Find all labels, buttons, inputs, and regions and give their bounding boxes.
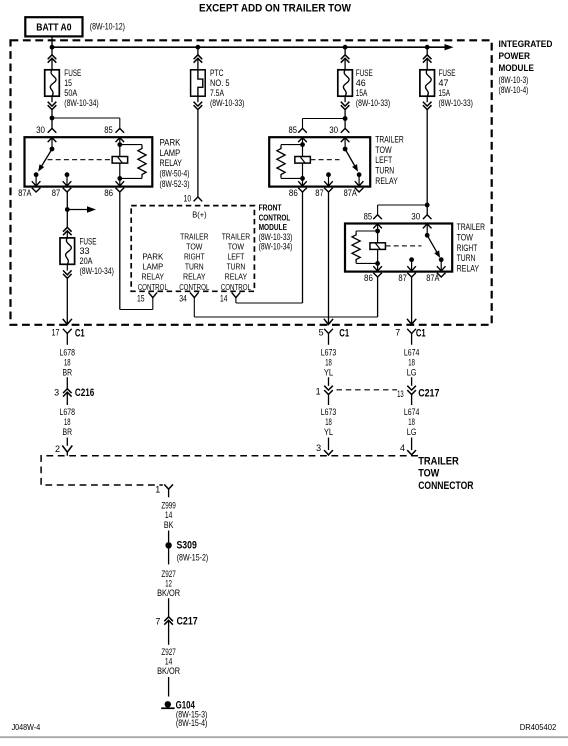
svg-text:87: 87 [52,188,61,198]
svg-text:RIGHT: RIGHT [457,243,478,253]
svg-text:L674: L674 [404,347,420,357]
svg-text:YL: YL [324,427,333,437]
park relay node coil top [117,142,122,147]
node bus-fuse15 [50,45,55,50]
svg-text:86: 86 [364,273,373,283]
fuse46 lower terminal chevrons [344,96,346,102]
svg-text:FRONT: FRONT [259,203,282,213]
wire to left-turn relay pin30 [344,119,346,129]
svg-text:RIGHT: RIGHT [184,252,205,262]
svg-text:TRAILER: TRAILER [418,455,459,467]
park relay switch common wire [51,138,53,149]
svg-text:17: 17 [52,327,60,337]
svg-text:TRAILER: TRAILER [457,222,486,232]
wire to C217 terminal 1 [328,377,330,386]
wire to ground G104 [168,677,170,697]
svg-text:BR: BR [63,427,73,437]
svg-text:LEFT: LEFT [227,252,244,262]
wire fuse47 down to right-turn relay feed node [426,110,428,205]
svg-text:TURN: TURN [457,253,476,263]
right-turn relay coil wires [377,224,379,243]
wire C216 down [66,392,68,405]
fuse F15 [45,70,60,96]
PTC lower terminal chevrons [197,96,199,102]
svg-text:2: 2 [55,444,60,454]
park relay pin 86 bottom [116,181,125,186]
node bus-fuse47 [425,45,430,50]
node fuse46 out [343,116,348,121]
svg-text:(8W-10-33): (8W-10-33) [356,98,390,108]
left-turn relay contact 87 [326,172,331,177]
trailer tow connector terminal 4 [407,450,416,455]
svg-text:18: 18 [64,417,71,427]
svg-text:85: 85 [364,211,373,221]
connector C1 terminal 17 [63,329,72,334]
wire C217-7 down [168,620,170,645]
right-turn relay resistor [356,230,378,232]
left-turn relay coil wires [302,138,304,157]
connector C1 terminal 5 [324,329,333,334]
svg-text:87A: 87A [426,273,439,283]
left-turn relay node coil bottom [300,176,305,181]
svg-text:46: 46 [356,78,366,88]
right-turn relay pin 87 bottom [407,266,416,271]
svg-text:CONTROL: CONTROL [221,282,251,292]
svg-text:LG: LG [407,427,417,437]
left-turn relay pin 87A bottom [355,181,364,186]
relay box PARK LAMP RELAY [25,137,153,186]
right-turn relay switch common wire [426,224,428,235]
svg-text:TURN: TURN [227,262,246,272]
svg-text:C217: C217 [177,615,198,627]
wire fuse15 to relay node [51,110,53,118]
svg-text:(8W-10-33): (8W-10-33) [439,98,473,108]
fuse47 lower terminal chevrons [426,96,428,102]
wire to trailer tow connector terminal 4 [411,438,413,451]
svg-text:L673: L673 [321,407,337,417]
park relay switch arm [40,149,53,170]
svg-text:C216: C216 [75,387,94,399]
connector C217 dashed link [337,389,398,391]
svg-text:RELAY: RELAY [375,176,398,186]
svg-text:12: 12 [165,578,172,588]
svg-text:NO. 5: NO. 5 [210,78,230,88]
svg-text:Z999: Z999 [161,500,176,510]
wire BATT A0 down to bus [51,36,53,47]
left-turn relay coil link dashed [310,159,339,161]
wire fuse33 to connector C1 terminal 17 [66,278,68,324]
park relay coil [112,157,128,164]
svg-text:TOW: TOW [418,468,440,480]
park relay coil link dashed [48,159,112,161]
wire PTC to FCM pin 10 [197,110,199,197]
relay box TRAILER TOW RIGHT TURN RELAY [345,224,452,272]
svg-text:30: 30 [329,125,338,135]
svg-text:1: 1 [155,485,160,495]
svg-text:87A: 87A [344,188,357,198]
svg-text:TOW: TOW [457,232,474,242]
FCM pin 15 [149,292,158,297]
svg-text:INTEGRATED: INTEGRATED [499,39,553,50]
svg-text:BK: BK [164,520,174,530]
svg-text:C217: C217 [418,387,439,399]
fuse F46 [338,70,353,96]
svg-text:TRAILER: TRAILER [180,232,208,242]
svg-text:CONTROL: CONTROL [179,282,209,292]
svg-text:PARK: PARK [160,137,181,147]
fuse33 lower terminal chevrons [66,264,68,270]
svg-text:TURN: TURN [185,262,204,272]
svg-text:18: 18 [64,357,71,367]
svg-text:LEFT: LEFT [375,155,392,165]
park relay node coil bottom [117,176,122,181]
park relay contact 87 [65,172,70,177]
svg-text:L674: L674 [404,407,420,417]
wire to C216 [66,377,68,389]
svg-text:C1: C1 [75,328,85,340]
svg-text:7: 7 [155,616,160,626]
PTC No.5 device [191,70,206,96]
right-turn relay pin 85 top [373,215,382,219]
trailer tow connector terminal 1 [164,484,173,489]
svg-text:(8W-15-4): (8W-15-4) [176,718,208,728]
svg-text:5: 5 [319,327,324,337]
park relay pin 85 top [116,128,125,132]
svg-text:MODULE: MODULE [259,222,288,232]
wire bus to fuse15 terminal [51,47,53,55]
wire Z999 upper segment [168,489,170,497]
park relay pin 87 bottom [63,181,72,186]
svg-text:S309: S309 [177,540,197,552]
svg-text:(8W-15-2): (8W-15-2) [177,552,209,562]
connector C217 terminal 7 [164,617,173,621]
wire left-turn relay 87 down to C1 terminal 5 [328,192,330,325]
branch arrow to park lamps [67,209,88,211]
svg-text:RELAY: RELAY [142,272,165,282]
node bus-PTC [196,45,201,50]
svg-text:FUSE: FUSE [439,68,456,78]
wire into fuse 15 [51,58,53,70]
svg-text:BR: BR [63,367,73,377]
right-turn relay pin 87A bottom [437,266,446,271]
svg-text:DR405402: DR405402 [520,722,557,732]
wire to park relay pin30 [51,118,53,128]
svg-text:30: 30 [36,125,45,135]
svg-text:(8W-10-33): (8W-10-33) [210,98,244,108]
connector C1 terminal 7 [407,329,416,334]
svg-text:B(+): B(+) [192,209,207,219]
svg-text:(8W-10-34): (8W-10-34) [64,98,98,108]
node right-turn relay feed [425,203,430,208]
integrated power module dashed border [11,40,492,325]
svg-text:RELAY: RELAY [225,272,248,282]
svg-text:(8W-10-34): (8W-10-34) [80,266,114,276]
wire to trailer tow connector terminal 2 [66,438,68,446]
fuse F47 [420,70,435,96]
left-turn relay pin 30 top [341,128,350,132]
park relay switch pivot [50,147,55,152]
svg-text:(8W-10-4): (8W-10-4) [499,85,529,95]
right-turn relay contact 87A [439,257,444,262]
svg-text:LAMP: LAMP [142,262,163,272]
svg-text:FUSE: FUSE [356,68,373,78]
svg-text:87: 87 [315,188,324,198]
svg-text:FUSE: FUSE [64,68,81,78]
left-turn relay resistor [281,144,303,146]
svg-text:TOW: TOW [186,242,203,252]
relay box TRAILER TOW LEFT TURN RELAY [269,137,370,186]
svg-text:13: 13 [397,389,404,399]
park relay wire 87 to pin [66,175,68,187]
wire C1-5 down [328,333,330,345]
svg-text:3: 3 [54,388,59,398]
connector C216 terminal 3 [63,389,72,393]
svg-text:86: 86 [289,188,298,198]
wire C1-7 down [411,333,413,345]
FCM pin 34 [190,292,199,297]
svg-text:14: 14 [220,293,227,303]
right-turn relay node coil top [375,229,380,234]
wire left-turn relay 86 to FCM pin 14 [302,192,304,303]
svg-text:LAMP: LAMP [160,148,181,158]
front control module dashed box [131,206,254,292]
right-turn relay coil [370,243,386,250]
wire S309 down [168,548,170,564]
svg-text:15: 15 [64,78,72,88]
wire C217-13 down [411,395,413,406]
svg-text:TRAILER: TRAILER [222,232,250,242]
svg-text:7: 7 [395,327,400,337]
svg-text:RELAY: RELAY [160,158,183,168]
wire to right-turn relay pin30 [426,205,428,215]
FCM pin 14 [232,292,241,297]
svg-text:J048W-4: J048W-4 [12,722,41,732]
svg-text:CONTROL: CONTROL [259,212,291,222]
wire to splice S309 [168,531,170,543]
left-turn relay coil [295,157,311,164]
left-turn relay contact wires [328,175,330,187]
svg-text:47: 47 [439,78,449,88]
wire to C217 terminal 7 [168,598,170,617]
svg-text:4: 4 [400,443,405,453]
right-turn relay contact 87 [409,257,414,262]
svg-text:BK/OR: BK/OR [157,666,180,676]
left-turn relay pin 86 bottom [298,181,307,186]
svg-text:BK/OR: BK/OR [157,588,180,598]
svg-text:C1: C1 [339,328,349,340]
right-turn relay coil link dashed [386,245,422,247]
right-turn relay switch pivot [425,233,430,238]
svg-text:87A: 87A [18,188,31,198]
PTC upper terminal chevrons [194,55,203,59]
wire right-turn relay 86 to FCM pin 34 [377,277,379,317]
wire branch to left-turn relay pin85 [303,118,346,120]
right-turn relay node coil bottom [375,261,380,266]
right-turn relay contact wires [411,260,413,272]
svg-text:15: 15 [137,293,145,303]
right-turn relay pin 30 top [423,215,432,219]
FCM pin 10 B+ [194,197,203,202]
trailer tow connector outline dashed [41,456,418,485]
connector C217 terminal 1 [324,386,333,390]
park relay coil wires [119,138,121,157]
svg-text:86: 86 [104,188,113,198]
trailer tow connector terminal 2 [62,446,72,453]
svg-text:RELAY: RELAY [183,272,206,282]
svg-text:85: 85 [104,125,113,135]
trailer tow connector terminal 3 [324,450,333,455]
wire branch to right-turn relay pin85 [378,204,428,206]
svg-text:PARK: PARK [142,252,163,262]
wire right-turn relay 87 down to C1 terminal 7 [411,277,413,325]
svg-text:3: 3 [316,443,321,453]
svg-text:15A: 15A [356,88,368,98]
svg-text:18: 18 [408,357,415,367]
fuse46 upper terminal chevrons [341,55,350,59]
svg-text:Z927: Z927 [161,647,176,657]
left-turn relay node coil top [300,142,305,147]
svg-text:YL: YL [324,367,333,377]
svg-text:85: 85 [289,125,298,135]
svg-text:TURN: TURN [375,166,394,176]
svg-text:33: 33 [80,246,90,256]
svg-text:Z927: Z927 [161,569,176,579]
svg-text:CONNECTOR: CONNECTOR [418,480,473,492]
left-turn relay pin 87 bottom [324,181,333,186]
left-turn relay switch pivot [343,147,348,152]
svg-text:30: 30 [411,211,420,221]
wire to fuse 33 [66,210,68,228]
park relay contact 87A [34,172,39,177]
svg-text:EXCEPT ADD ON TRAILER TOW: EXCEPT ADD ON TRAILER TOW [199,2,352,14]
left-turn relay switch arm [345,149,357,170]
svg-text:L673: L673 [321,347,337,357]
svg-text:34: 34 [179,293,187,303]
fuse33 upper terminal chevrons [63,227,72,231]
fuse15 lower terminal chevrons [51,96,53,102]
svg-text:L678: L678 [60,407,76,417]
wire park relay 86 down to FCM pin 15 [119,192,121,310]
svg-text:MODULE: MODULE [499,63,534,74]
svg-text:50A: 50A [64,88,77,98]
svg-text:C1: C1 [416,328,426,340]
svg-text:L678: L678 [60,347,76,357]
park relay pin 30 top [48,128,57,132]
svg-text:RELAY: RELAY [457,264,480,274]
svg-text:PTC: PTC [210,68,224,78]
svg-text:(8W-50-4): (8W-50-4) [160,168,190,178]
wire to C217 terminal 13 [411,377,413,386]
svg-text:10: 10 [184,193,192,203]
svg-text:TOW: TOW [228,242,245,252]
wire park relay 87 down [66,192,68,210]
ground G104 [165,701,171,707]
svg-text:(8W-10-12): (8W-10-12) [90,22,125,32]
svg-text:CONTROL: CONTROL [138,282,168,292]
svg-text:POWER: POWER [499,51,531,62]
park relay pin 87A bottom [32,181,41,186]
fuse F33 [60,238,75,264]
bus wire B+ [52,46,447,48]
svg-text:LG: LG [407,367,417,377]
wire bus to PTC terminal [197,47,199,55]
left-turn relay pin 85 top [298,128,307,132]
node fused park lamp feed [65,207,70,212]
wire fuse46 down [344,110,346,119]
wire bus to fuse46 terminal [344,47,346,55]
svg-text:14: 14 [165,657,172,667]
connector C217 terminal 13 [407,386,416,390]
svg-text:14: 14 [165,510,172,520]
svg-text:15A: 15A [439,88,451,98]
footer rule [0,736,568,738]
left-turn relay switch common wire [344,138,346,149]
svg-text:20A: 20A [80,256,93,266]
svg-text:BATT A0: BATT A0 [36,22,71,34]
svg-text:(8W-10-34): (8W-10-34) [259,242,293,252]
svg-text:TRAILER: TRAILER [375,134,404,144]
wire C1-17 down [66,333,68,345]
wire branch to park relay pin85 [52,117,120,119]
left-turn relay contact 87A [357,172,362,177]
svg-text:(8W-10-33): (8W-10-33) [259,232,293,242]
svg-text:18: 18 [325,417,332,427]
node bus-fuse46 [343,45,348,50]
fuse15 upper terminal chevrons [48,55,57,59]
svg-text:1: 1 [316,387,321,397]
svg-text:(8W-52-3): (8W-52-3) [160,179,190,189]
wire to trailer tow connector terminal 3 [328,438,330,451]
svg-text:FUSE: FUSE [80,236,97,246]
right-turn relay switch arm [427,235,439,256]
right-turn relay pin 86 bottom [373,266,382,271]
node fuse15 out [50,116,55,121]
fuse47 upper terminal chevrons [423,55,432,59]
park relay wire 87A to pin [35,175,37,187]
svg-text:87: 87 [398,273,407,283]
svg-text:(8W-10-3): (8W-10-3) [499,75,529,85]
wire C217-1 down [328,395,330,406]
svg-text:TOW: TOW [375,145,392,155]
park relay resistor [120,144,142,146]
battery feed box BATT A0 [25,17,82,36]
splice S309 [165,542,171,548]
bus arrowhead [445,44,454,50]
svg-text:18: 18 [325,357,332,367]
svg-text:7.5A: 7.5A [210,88,224,98]
svg-text:18: 18 [408,417,415,427]
wire bus to fuse47 terminal [426,47,428,55]
